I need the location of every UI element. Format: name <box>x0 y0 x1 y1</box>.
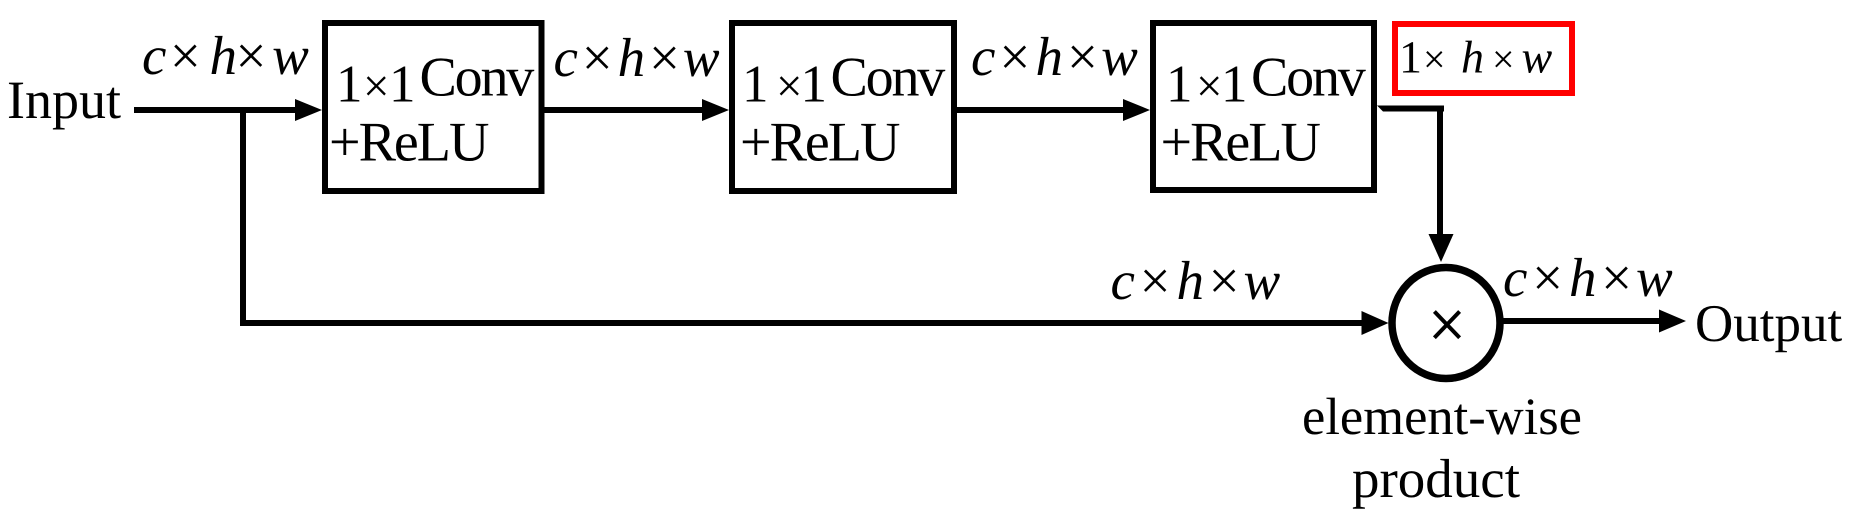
label 1×h×w attention-map red box <box>1395 24 1572 93</box>
svg-text:c×h×w: c×h×w <box>142 25 309 86</box>
wire conv2 to conv3 <box>957 107 1123 113</box>
svg-text:+ReLU: +ReLU <box>740 112 900 174</box>
block conv3 (1×1 Conv +ReLU) <box>1153 23 1374 190</box>
arrowhead into product left <box>1362 311 1389 335</box>
svg-text:c×h×w: c×h×w <box>554 27 720 88</box>
wire conv3 to product: horizontal segment <box>1377 106 1444 112</box>
arrowhead into conv2 <box>702 99 729 121</box>
svg-text:c×h×w: c×h×w <box>971 26 1138 87</box>
svg-text:+ReLU: +ReLU <box>329 112 489 174</box>
arrowhead into Output <box>1659 310 1686 333</box>
svg-text:c×h×w: c×h×w <box>1111 250 1282 311</box>
arrowhead into product top <box>1429 234 1454 262</box>
block conv1 (1×1 Conv +ReLU) <box>325 23 542 191</box>
svg-text:+ReLU: +ReLU <box>1161 112 1321 174</box>
wire conv1 to conv2 <box>544 107 703 113</box>
block conv2 (1×1 Conv +ReLU) <box>732 23 954 191</box>
svg-text:1×h×w: 1×h×w <box>1399 32 1553 83</box>
wire skip horizontal segment <box>240 320 1362 326</box>
arrowhead into conv3 <box>1123 99 1150 121</box>
wire input branch skip connection: down segment <box>240 110 246 326</box>
svg-text:product: product <box>1352 448 1520 509</box>
arrowhead into conv1 <box>295 99 322 121</box>
multiply sign inside product node <box>1434 312 1459 338</box>
svg-text:element-wise: element-wise <box>1302 388 1582 446</box>
svg-text:c×h×w: c×h×w <box>1503 247 1674 308</box>
node element-wise product circle <box>1392 268 1500 379</box>
wire input to conv1 <box>134 107 296 113</box>
wire conv3 to product: down segment <box>1437 106 1443 235</box>
svg-text:Output: Output <box>1695 295 1843 353</box>
wire product to Output <box>1503 318 1660 324</box>
svg-text:Input: Input <box>7 70 121 130</box>
